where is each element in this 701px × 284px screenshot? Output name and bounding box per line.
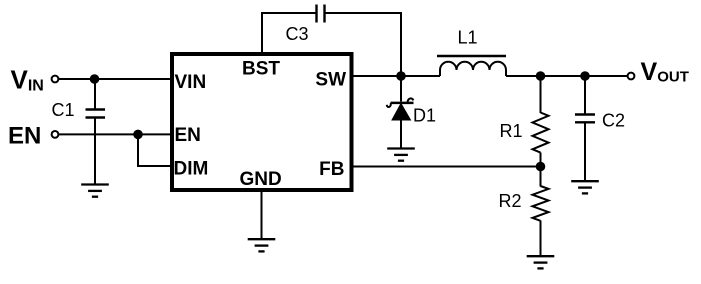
svg-text:DIM: DIM: [174, 159, 209, 180]
svg-text:VOUT: VOUT: [641, 58, 689, 86]
svg-text:L1: L1: [458, 28, 478, 48]
svg-text:EN: EN: [175, 125, 201, 146]
svg-text:VIN: VIN: [11, 65, 44, 95]
svg-text:BST: BST: [242, 59, 280, 80]
svg-text:C3: C3: [286, 24, 309, 44]
svg-text:R1: R1: [500, 121, 523, 141]
svg-text:C2: C2: [602, 111, 625, 131]
svg-text:EN: EN: [8, 123, 41, 150]
svg-text:R2: R2: [499, 191, 522, 211]
svg-text:SW: SW: [315, 70, 346, 91]
svg-text:C1: C1: [52, 100, 75, 120]
svg-text:GND: GND: [240, 169, 282, 190]
svg-text:FB: FB: [319, 159, 344, 180]
svg-text:VIN: VIN: [175, 72, 207, 93]
svg-text:D1: D1: [413, 106, 436, 126]
